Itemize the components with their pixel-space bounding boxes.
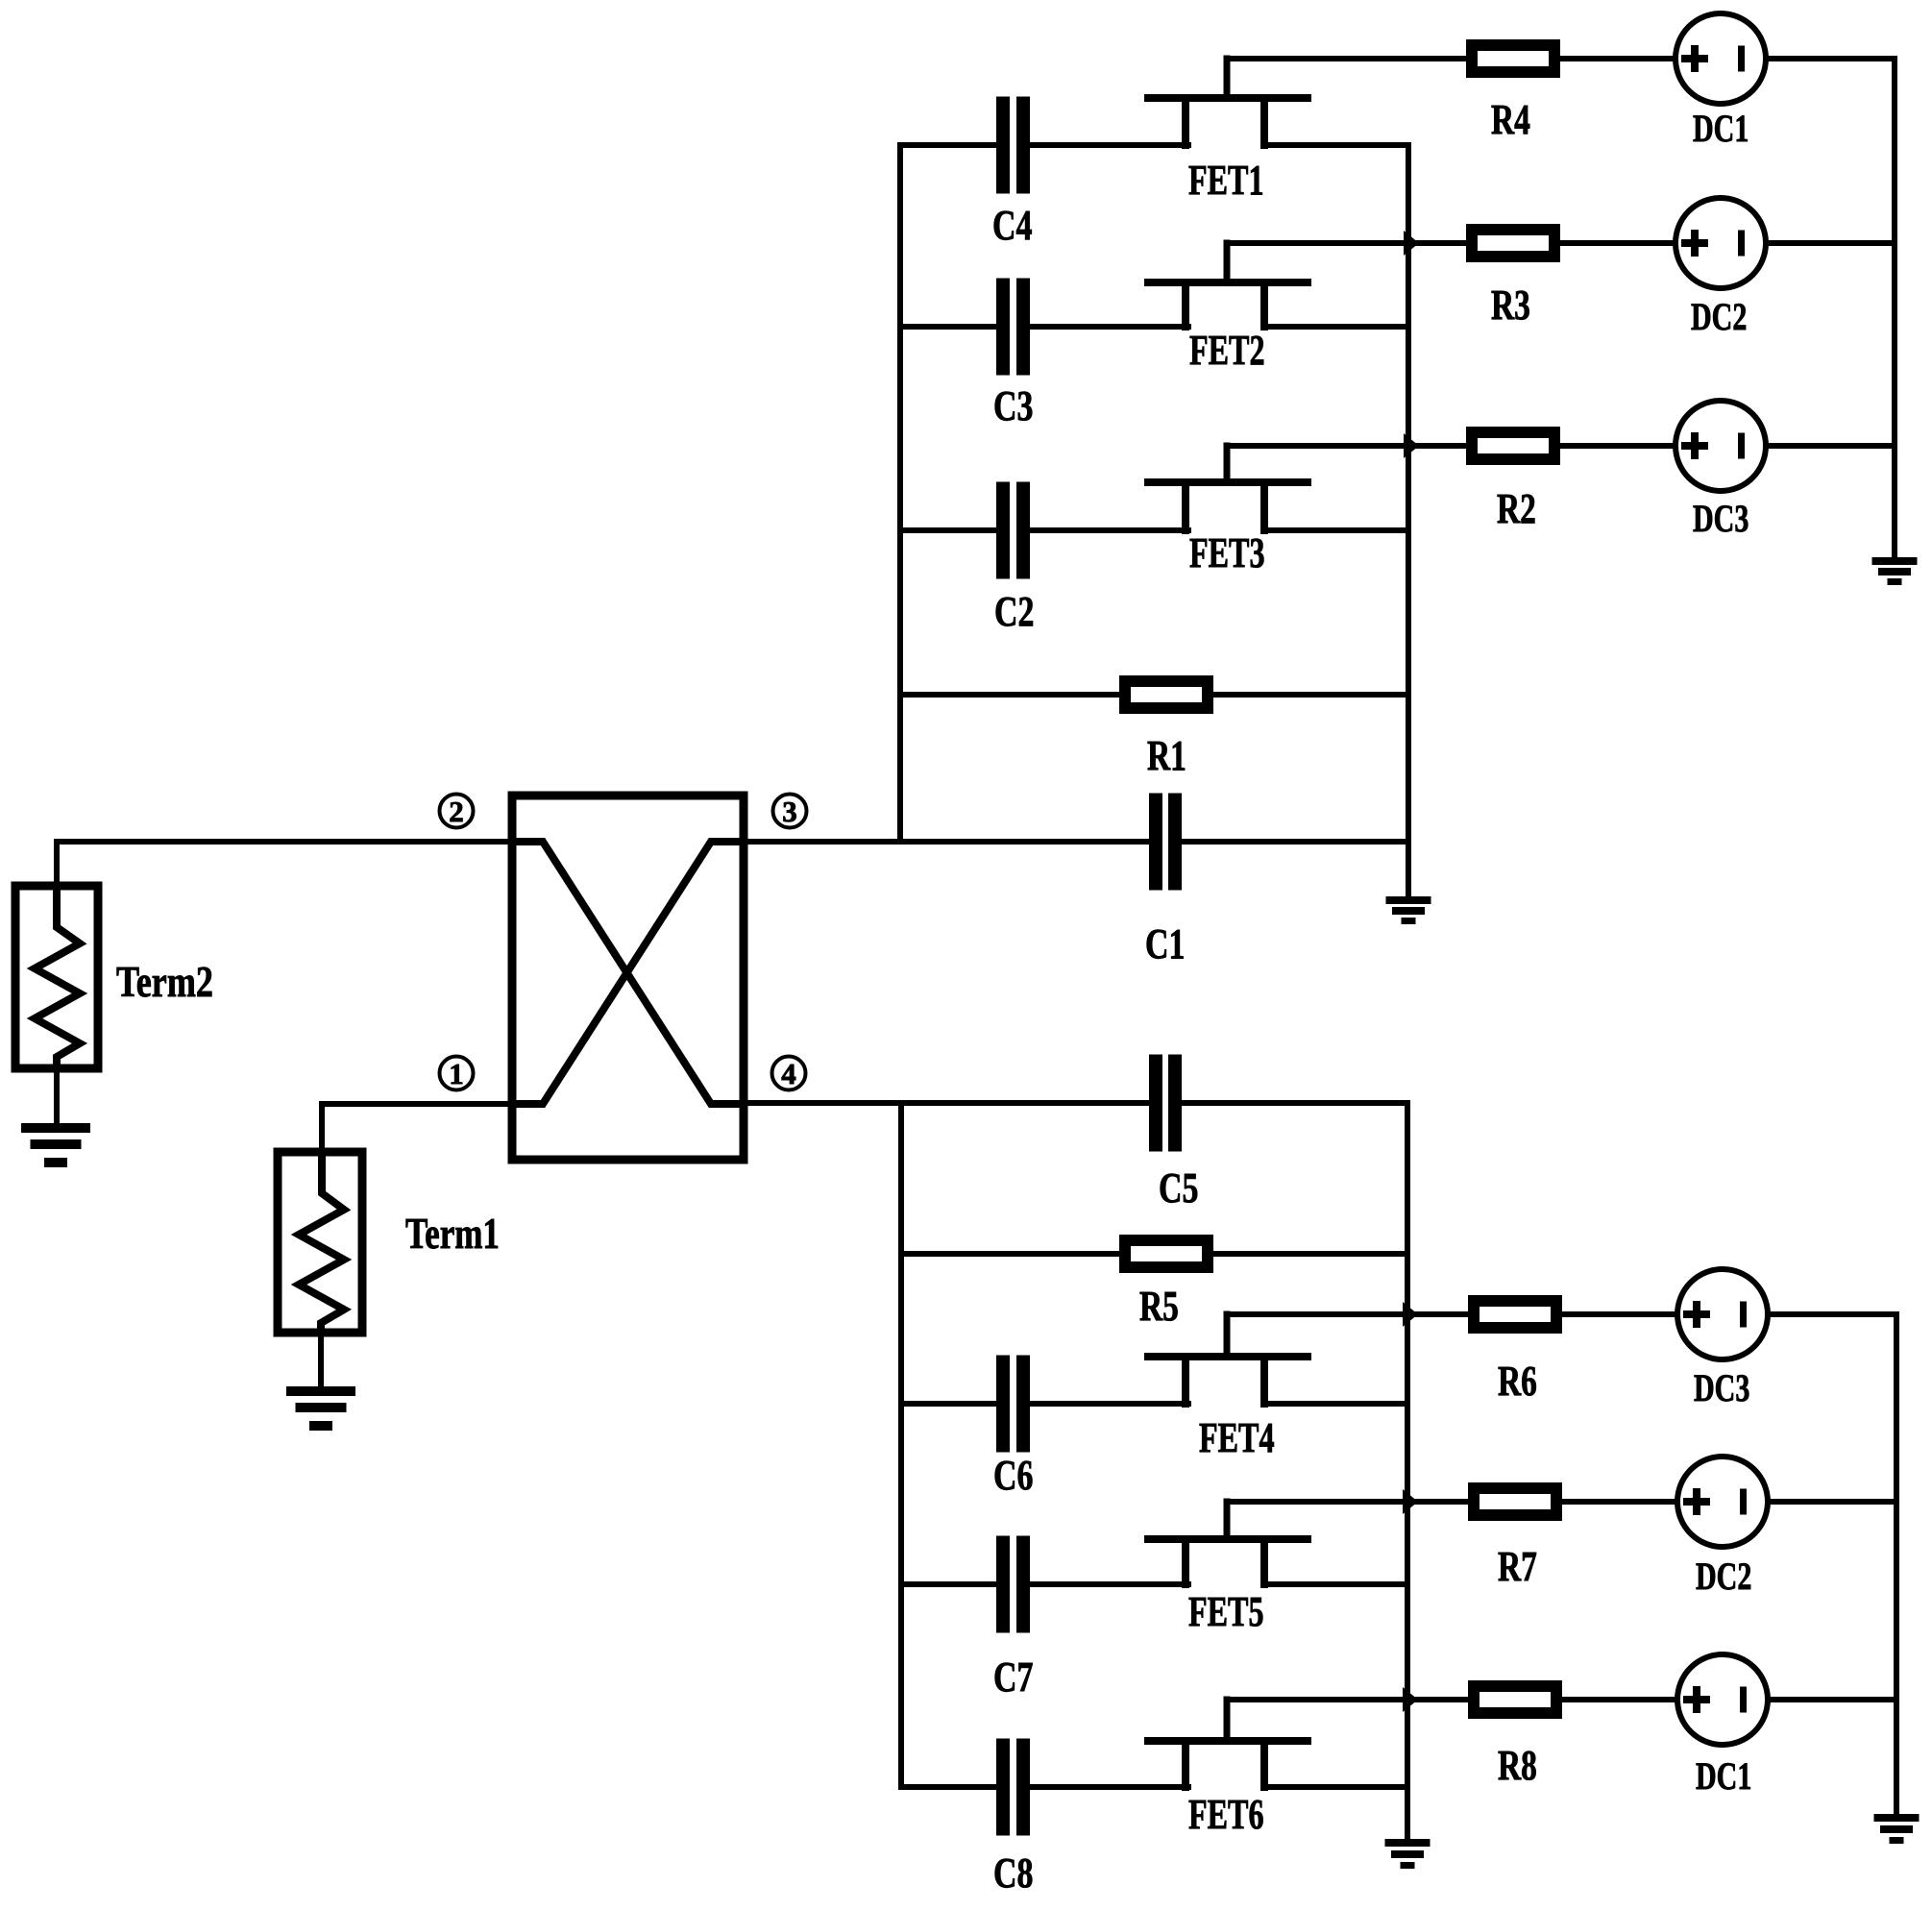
svg-text:C8: C8 (993, 1850, 1033, 1897)
svg-text:FET5: FET5 (1188, 1589, 1264, 1635)
svg-text:R3: R3 (1491, 282, 1530, 329)
svg-text:FET1: FET1 (1188, 158, 1264, 204)
svg-text:FET2: FET2 (1189, 328, 1265, 374)
svg-text:FET3: FET3 (1189, 530, 1265, 576)
svg-text:Term2: Term2 (116, 957, 213, 1006)
svg-text:R4: R4 (1491, 97, 1530, 143)
svg-text:R7: R7 (1498, 1544, 1537, 1590)
svg-text:DC2: DC2 (1691, 295, 1747, 338)
svg-text:DC1: DC1 (1696, 1754, 1751, 1798)
svg-text:FET4: FET4 (1199, 1415, 1275, 1461)
svg-text:FET6: FET6 (1188, 1792, 1264, 1838)
svg-text:R6: R6 (1498, 1359, 1537, 1405)
svg-text:C1: C1 (1145, 921, 1185, 967)
svg-text:C3: C3 (993, 383, 1033, 429)
svg-text:C5: C5 (1159, 1165, 1198, 1212)
svg-text:DC2: DC2 (1696, 1555, 1751, 1598)
svg-text:2: 2 (449, 795, 464, 828)
svg-text:3: 3 (782, 795, 797, 828)
svg-text:Term1: Term1 (405, 1210, 500, 1259)
svg-text:4: 4 (781, 1057, 796, 1090)
svg-text:R8: R8 (1498, 1743, 1537, 1789)
svg-text:DC3: DC3 (1693, 497, 1749, 540)
svg-text:C7: C7 (993, 1654, 1033, 1701)
svg-text:C4: C4 (992, 203, 1032, 249)
svg-text:C6: C6 (993, 1453, 1033, 1499)
svg-text:DC1: DC1 (1693, 107, 1749, 150)
svg-text:R5: R5 (1139, 1284, 1179, 1330)
svg-text:C2: C2 (994, 589, 1034, 635)
svg-text:DC3: DC3 (1694, 1366, 1749, 1409)
svg-text:1: 1 (449, 1057, 464, 1090)
svg-text:R2: R2 (1497, 486, 1536, 532)
svg-text:R1: R1 (1147, 733, 1186, 779)
